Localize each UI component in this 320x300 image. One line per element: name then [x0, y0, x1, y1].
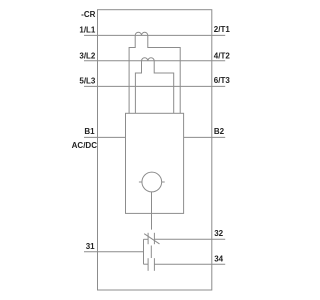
- svg-text:3/L2: 3/L2: [79, 51, 96, 60]
- evaluation block body: [126, 113, 184, 213]
- transformer T2 primary humps: [142, 58, 155, 61]
- wire T2 left leg: [135, 61, 141, 114]
- border frame: [98, 10, 212, 290]
- svg-text:31: 31: [86, 242, 95, 251]
- svg-text:-CR: -CR: [81, 10, 95, 19]
- dial left tick: [139, 181, 142, 183]
- transformer T1 primary humps: [135, 32, 148, 35]
- svg-text:5/L3: 5/L3: [79, 76, 96, 85]
- wire T1 left leg: [129, 35, 135, 113]
- wire B2: [184, 136, 226, 138]
- wire trip actuator: [151, 192, 153, 230]
- svg-text:32: 32: [214, 229, 223, 238]
- wire NO left connector: [144, 263, 149, 265]
- contact NC trip slash: [144, 234, 159, 244]
- wire 5/L3 phase line: [84, 85, 225, 87]
- svg-text:B2: B2: [214, 127, 225, 136]
- svg-text:6/T3: 6/T3: [214, 76, 231, 85]
- wire mechanical link: [150, 246, 152, 259]
- dial right tick: [162, 181, 165, 183]
- contact NC left bar: [147, 233, 149, 244]
- contact NC right bar: [153, 233, 155, 244]
- svg-text:B1: B1: [84, 127, 95, 136]
- adjustment dial: [142, 172, 162, 192]
- wire 34: [154, 263, 225, 265]
- svg-text:34: 34: [214, 255, 223, 264]
- wire 32: [154, 238, 225, 240]
- wire T2 right leg: [154, 61, 174, 114]
- svg-text:AC/DC: AC/DC: [72, 141, 98, 150]
- wire 31: [84, 251, 144, 253]
- wire B1: [84, 136, 126, 138]
- wire 1/L1 phase line: [84, 34, 225, 36]
- svg-text:4/T2: 4/T2: [214, 51, 231, 60]
- contact NO left bar: [147, 258, 149, 271]
- contact NO right bar: [153, 258, 155, 271]
- svg-text:2/T1: 2/T1: [214, 25, 231, 34]
- wire 3/L2 phase line: [84, 60, 225, 62]
- wire T1 right leg: [148, 35, 180, 113]
- svg-text:1/L1: 1/L1: [79, 26, 96, 35]
- wire NC left connector: [144, 238, 149, 240]
- wire common bar: [143, 239, 145, 264]
